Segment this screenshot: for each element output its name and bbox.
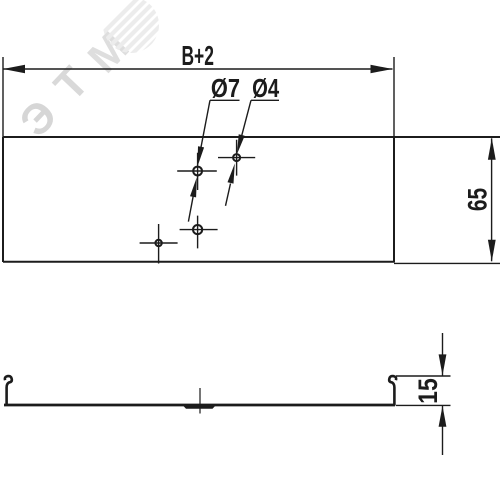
svg-text:М: М	[79, 23, 138, 82]
svg-text:B+2: B+2	[181, 40, 213, 71]
svg-text:Т: Т	[45, 58, 98, 110]
svg-text:Э: Э	[11, 91, 67, 146]
svg-text:Ø7: Ø7	[211, 74, 240, 103]
svg-text:15: 15	[415, 378, 444, 404]
svg-text:65: 65	[463, 188, 493, 211]
svg-text:Ø4: Ø4	[252, 74, 279, 103]
